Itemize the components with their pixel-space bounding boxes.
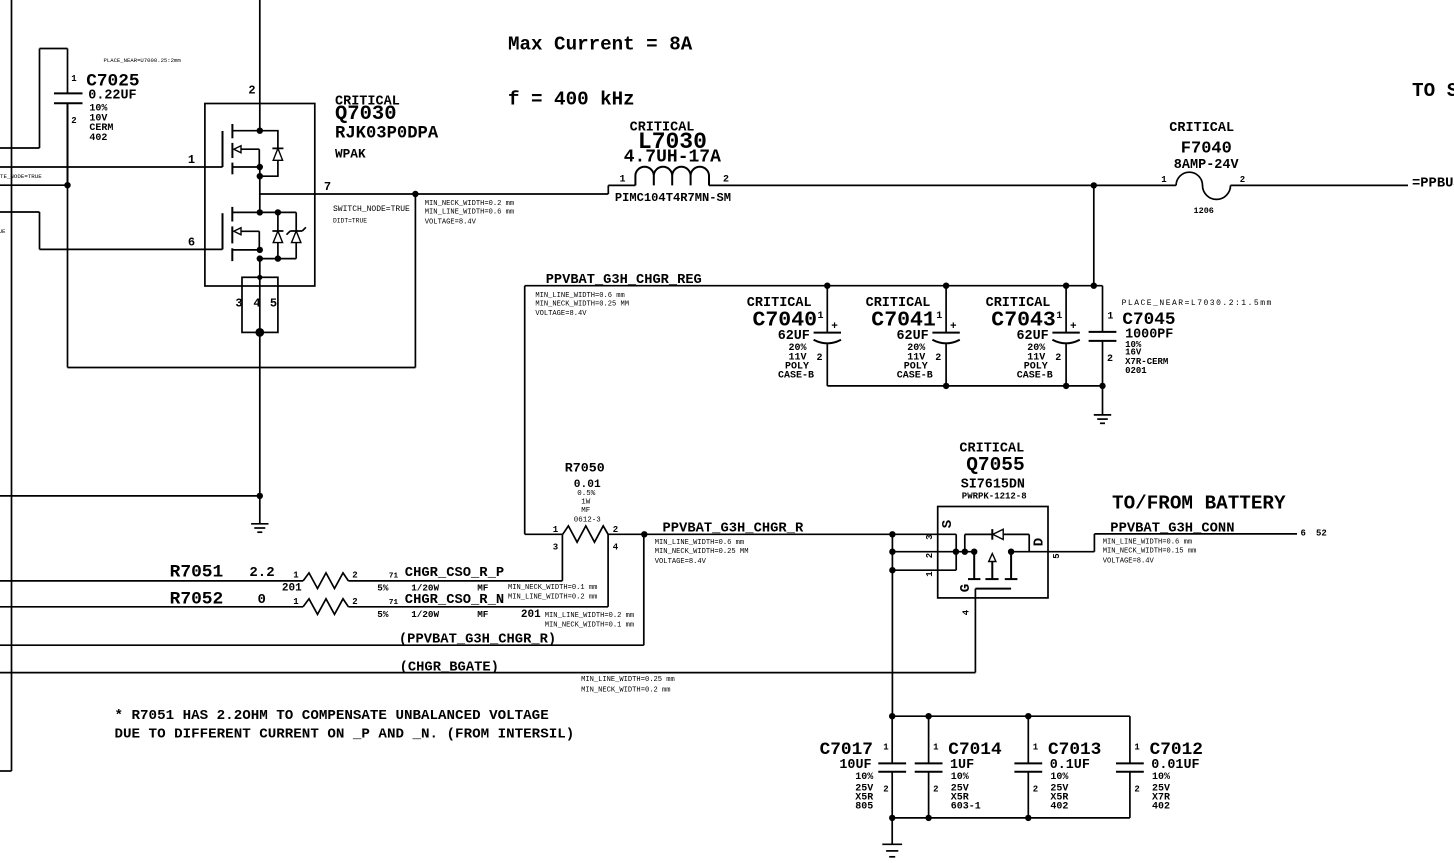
- wire ground rail left: [0, 495, 260, 497]
- capacitor C7014 symbol: [915, 716, 943, 818]
- label MIN_LINE_WIDTH=0.2 mm p: [508, 594, 597, 602]
- junction dot q7055 src a: [953, 549, 959, 555]
- svg-text:201: 201: [282, 582, 302, 594]
- svg-text:3: 3: [553, 543, 558, 553]
- svg-text:10UF: 10UF: [839, 758, 871, 773]
- svg-text:+: +: [1070, 321, 1077, 333]
- C7041 plus sign: [950, 321, 957, 333]
- wire R7050 pin 3 sense: [561, 534, 563, 581]
- svg-text:=PPBUS: =PPBUS: [1412, 177, 1454, 192]
- C7017 prop3: [855, 793, 873, 804]
- svg-text:603-1: 603-1: [951, 802, 981, 813]
- C7012 prop4: [1152, 802, 1170, 813]
- C7045 pin 2 label: [1107, 354, 1113, 365]
- junction dot lower drain diode: [275, 209, 281, 215]
- svg-text:5%: 5%: [377, 582, 389, 593]
- R7052 package 201: [521, 609, 541, 621]
- C7012 pin 1 label: [1134, 743, 1140, 753]
- junction dot brail gnd: [889, 815, 895, 821]
- resistor R7052 element: [0, 599, 608, 615]
- junction dot Q7030 source: [257, 164, 263, 170]
- junction dot q7055 src c: [971, 549, 977, 555]
- capacitor C7025: [54, 93, 83, 185]
- ground symbol bottom: [882, 818, 902, 857]
- svg-text:2: 2: [1240, 175, 1245, 185]
- svg-text:1: 1: [1107, 312, 1113, 323]
- net label PPVBAT_G3H_CONN: [1110, 522, 1234, 537]
- C7017 pin 2 label: [883, 785, 888, 795]
- svg-text:2: 2: [71, 116, 76, 126]
- junction dot pins bottom: [255, 328, 264, 337]
- svg-text:PIMC104T4R7MN-SM: PIMC104T4R7MN-SM: [615, 191, 731, 205]
- Q7055 S label: [940, 520, 956, 528]
- C7013 prop1: [1050, 772, 1068, 783]
- C7017 value: [839, 758, 871, 773]
- svg-text:MIN_LINE_WIDTH=0.6 mm: MIN_LINE_WIDTH=0.6 mm: [535, 292, 624, 300]
- fuse F7040 ref: [1181, 140, 1232, 159]
- svg-text:6: 6: [1301, 529, 1306, 539]
- C7040 package CASE-B: [778, 370, 814, 381]
- svg-text:2: 2: [933, 785, 938, 795]
- svg-text:Q7055: Q7055: [966, 454, 1025, 476]
- svg-text:1/20W: 1/20W: [411, 609, 439, 620]
- net label (CHGR_BGATE): [400, 659, 499, 675]
- C7014 prop1: [951, 772, 969, 783]
- svg-text:71: 71: [389, 573, 399, 581]
- C7045 package 0201: [1125, 366, 1147, 376]
- C7043 pin 2 label: [1055, 353, 1061, 364]
- R7050 pin 3 label: [553, 543, 558, 553]
- wire pin 7 switch node: [260, 185, 636, 194]
- Q7030 lower FET source stub: [232, 249, 259, 251]
- svg-text:10%: 10%: [1050, 772, 1068, 783]
- wire R7050 pin 4 sense: [607, 534, 609, 607]
- C7040 voltage 11V: [789, 353, 807, 364]
- svg-text:MF: MF: [477, 582, 489, 593]
- junction dot q7055 src b: [962, 549, 968, 555]
- junction dot rail q7055: [889, 713, 895, 719]
- C7025 package 402: [89, 133, 107, 144]
- svg-text:CASE-B: CASE-B: [1017, 370, 1053, 381]
- capacitor C7012 ref label: [1150, 740, 1203, 760]
- C7045 dielectric X7R-CERM: [1125, 357, 1168, 367]
- C7025 pin 2 label: [71, 116, 76, 126]
- svg-text:1: 1: [817, 311, 823, 322]
- svg-text:CASE-B: CASE-B: [778, 370, 814, 381]
- C7043 type POLY: [1024, 362, 1048, 373]
- L7030 value 4.7UH-17A: [624, 148, 721, 168]
- capacitor C7043 symbol: [1052, 286, 1079, 386]
- C7041 voltage 11V: [907, 353, 925, 364]
- svg-text:2: 2: [1033, 785, 1038, 795]
- C7043 CRITICAL label: [986, 296, 1051, 311]
- transistor Q7030 body box: [205, 104, 315, 287]
- C7041 value 62UF: [897, 329, 929, 344]
- svg-text:PPVBAT_G3H_CONN: PPVBAT_G3H_CONN: [1110, 522, 1234, 537]
- junction dot switch node: [412, 191, 418, 197]
- junction dot chgr pin2: [889, 549, 895, 555]
- junction dot C7043 top: [1063, 283, 1069, 289]
- node A wire into C7025 pin2: [0, 184, 68, 186]
- Q7055 G label: [958, 584, 974, 592]
- svg-text:4: 4: [962, 609, 972, 615]
- C7013 prop3: [1050, 793, 1068, 804]
- svg-text:5%: 5%: [377, 609, 389, 620]
- svg-text:1: 1: [619, 175, 625, 186]
- L7030 pin 2 label: [723, 175, 729, 186]
- capacitor C7043 ref: [991, 309, 1056, 333]
- svg-text:2: 2: [1134, 785, 1139, 795]
- C7014 prop3: [951, 793, 969, 804]
- wire fuse node down to reg rail: [1093, 185, 1095, 285]
- svg-text:MIN_NECK_WIDTH=0.15 mm: MIN_NECK_WIDTH=0.15 mm: [1103, 548, 1197, 556]
- L7030 CRITICAL label: [630, 121, 695, 136]
- label MIN_NECK_WIDTH=0.2 mm: [425, 200, 514, 208]
- resistor R7051 element: [0, 573, 562, 589]
- label MIN_LINE_WIDTH=0.25 mm bg: [581, 676, 675, 684]
- svg-text:402: 402: [1050, 802, 1068, 813]
- C7043 plus sign: [1070, 321, 1077, 333]
- R7050 pin 2 label: [613, 525, 618, 535]
- junction dot brail c7013: [1025, 815, 1031, 821]
- wire Q7030 switch node vertical: [259, 167, 261, 212]
- Q7055 diode symbol: [992, 529, 1003, 540]
- Q7055 package PWRPK-1212-8: [962, 491, 1027, 501]
- svg-text:1: 1: [188, 153, 195, 167]
- C7043 package CASE-B: [1017, 370, 1053, 381]
- C7014 pin 1 label: [933, 743, 939, 753]
- C7025 value 0.22UF: [88, 89, 136, 104]
- F7040 pin 1 label: [1161, 175, 1167, 185]
- svg-text:MIN_LINE_WIDTH=0.6 mm: MIN_LINE_WIDTH=0.6 mm: [425, 209, 514, 217]
- svg-text:2: 2: [816, 353, 822, 364]
- label PLACE_NEAR=L7030.2:1.5mm: [1122, 299, 1273, 308]
- junction dot chgr pin3: [889, 531, 895, 537]
- Q7030 lower FET channel: [231, 207, 233, 261]
- svg-text:3: 3: [235, 297, 242, 311]
- C7014 prop2: [951, 784, 969, 795]
- svg-text:+: +: [950, 321, 957, 333]
- wire Q7030 source to ground: [259, 332, 261, 496]
- F7040 value 8AMP-24V: [1174, 158, 1240, 173]
- label MIN_NECK_WIDTH=0.1 mm p: [508, 584, 597, 592]
- svg-text:C7013: C7013: [1048, 740, 1101, 760]
- svg-text:DUE TO DIFFERENT CURRENT ON _P: DUE TO DIFFERENT CURRENT ON _P AND _N. (…: [115, 727, 575, 743]
- label TO S (cut): [1412, 80, 1454, 102]
- Q7030 CRITICAL label: [335, 95, 400, 110]
- svg-text:2: 2: [1107, 354, 1113, 365]
- transistor Q7055 ref: [966, 454, 1025, 476]
- C7013 prop4: [1050, 802, 1068, 813]
- junction dot C7041 bottom: [943, 383, 949, 389]
- svg-text:D: D: [1032, 538, 1048, 546]
- label VOLTAGE=8.4V conn: [1103, 558, 1155, 566]
- resistor R7050 element: [525, 526, 608, 542]
- svg-text:MF: MF: [581, 507, 590, 515]
- capacitor C7013 ref label: [1048, 740, 1101, 760]
- Q7030 upper FET body diode: [260, 131, 284, 177]
- svg-text:2: 2: [1055, 353, 1061, 364]
- label VOLTAGE=8.4V: [425, 219, 477, 227]
- net label CHGR_CSO_R_P: [405, 566, 504, 581]
- C7014 prop4: [951, 802, 981, 813]
- R7052 type MF: [477, 609, 489, 620]
- label TO/FROM BATTERY: [1112, 493, 1286, 515]
- svg-text:VOLTAGE=8.4V: VOLTAGE=8.4V: [1103, 558, 1155, 566]
- svg-text:4: 4: [613, 543, 619, 553]
- junction dot rail c7013: [1025, 713, 1031, 719]
- junction dot Q7030 diode return: [257, 173, 263, 179]
- C7013 pin 2 label: [1033, 785, 1038, 795]
- junction dot lower source: [257, 247, 263, 253]
- capacitor C7040 ref: [753, 309, 818, 333]
- Q7030 pin 7 label: [324, 180, 331, 194]
- svg-text:0.5%: 0.5%: [577, 490, 596, 498]
- wire PPVBAT_G3H_CHGR_REG rail: [525, 285, 1103, 287]
- Q7030 pin 6 label: [188, 236, 195, 250]
- R7050 package 0612-3: [574, 517, 602, 525]
- inductor L7030 coils: [635, 167, 709, 186]
- svg-text:F7040: F7040: [1181, 140, 1232, 159]
- capacitor C7012 symbol: [1116, 716, 1144, 818]
- Q7055 body diode loop: [965, 534, 1029, 551]
- svg-text:VOLTAGE=8.4V: VOLTAGE=8.4V: [425, 219, 477, 227]
- svg-text:62UF: 62UF: [897, 329, 929, 344]
- Q7030 upper FET source stub: [232, 166, 259, 168]
- C7040 type POLY: [785, 362, 809, 373]
- label MIN_LINE_WIDTH=0.6 mm chgr: [655, 539, 744, 547]
- svg-text:TO/FROM BATTERY: TO/FROM BATTERY: [1112, 493, 1286, 515]
- svg-text:CRITICAL: CRITICAL: [1169, 121, 1234, 136]
- sheet ref 6: [1301, 529, 1306, 539]
- transistor Q7055 body box: [938, 507, 1048, 598]
- svg-text:805: 805: [855, 802, 873, 813]
- svg-text:TO SMC: TO SMC: [1412, 80, 1454, 102]
- svg-text:2: 2: [723, 175, 729, 186]
- svg-text:1206: 1206: [1194, 206, 1214, 216]
- svg-text:MIN_LINE_WIDTH=0.25 mm: MIN_LINE_WIDTH=0.25 mm: [581, 676, 675, 684]
- wire L7030 to F7040: [709, 184, 1176, 186]
- capacitor C7041 symbol: [932, 286, 959, 386]
- sheet ref 52: [1316, 529, 1327, 539]
- capacitor C7014 ref label: [948, 740, 1002, 760]
- svg-text:C7012: C7012: [1150, 740, 1203, 760]
- C7040 pin 1 label: [817, 311, 823, 322]
- label UE fragment: [0, 228, 6, 235]
- svg-text:G: G: [958, 584, 974, 592]
- svg-text:3: 3: [925, 534, 935, 539]
- C7013 value: [1050, 758, 1090, 773]
- Q7030 part RJK03P0DPA: [335, 125, 439, 144]
- svg-text:VOLTAGE=8.4V: VOLTAGE=8.4V: [535, 310, 587, 318]
- C7025 ref label: [86, 71, 139, 91]
- R7051 ref label: [170, 563, 224, 583]
- C7045 tolerance 10%: [1125, 340, 1142, 350]
- C7017 pin 1 label: [883, 743, 889, 753]
- svg-text:MF: MF: [477, 609, 489, 620]
- junction dot q7055 drain: [1008, 549, 1014, 555]
- wire Q7055 drain out: [1011, 534, 1297, 552]
- svg-text:71: 71: [389, 599, 399, 607]
- junction dot brail c7014: [925, 815, 931, 821]
- svg-text:MIN_NECK_WIDTH=0.2 mm: MIN_NECK_WIDTH=0.2 mm: [581, 687, 670, 695]
- Q7030 pin 5 label: [270, 297, 277, 311]
- inductor L7030 ref: [638, 129, 707, 155]
- junction dot C7041 top: [943, 283, 949, 289]
- svg-text:5: 5: [270, 297, 277, 311]
- Q7030 upper FET channel: [231, 124, 233, 174]
- svg-text:VOLTAGE=8.4V: VOLTAGE=8.4V: [655, 558, 707, 566]
- svg-text:MIN_LINE_WIDTH=0.2 mm: MIN_LINE_WIDTH=0.2 mm: [545, 612, 634, 620]
- svg-text:UE: UE: [0, 228, 6, 235]
- F7040 pin 2 label: [1240, 175, 1245, 185]
- junction dot rail c7014: [925, 713, 931, 719]
- capacitor C7017 ref label: [820, 740, 873, 760]
- C7012 value: [1151, 758, 1199, 773]
- L7030 part number PIMC104T4R7MN-SM: [615, 191, 731, 205]
- C7025 voltage 10V: [89, 113, 107, 124]
- svg-text:4.7UH-17A: 4.7UH-17A: [624, 148, 721, 168]
- svg-text:MIN_LINE_WIDTH=0.6 mm: MIN_LINE_WIDTH=0.6 mm: [655, 539, 744, 547]
- Q7055 part SI7615DN: [961, 478, 1025, 493]
- junction dot C7025 pin 2: [64, 182, 70, 188]
- ground symbol Q7030: [251, 496, 268, 532]
- note line 2: [115, 727, 575, 743]
- svg-text:0.22UF: 0.22UF: [88, 89, 136, 104]
- wire PPVBAT_G3H_CHGR_R stub: [0, 534, 644, 645]
- Q7030 lower FET body arrow: [234, 228, 259, 250]
- svg-text:1: 1: [71, 74, 77, 84]
- label MIN_LINE_WIDTH=0.6 mm: [425, 209, 514, 217]
- Q7055 pin 2 label: [925, 553, 935, 558]
- svg-text:PLACE_NEAR=L7030.2:1.5mm: PLACE_NEAR=L7030.2:1.5mm: [1122, 299, 1273, 308]
- svg-text:8AMP-24V: 8AMP-24V: [1174, 158, 1240, 173]
- svg-text:TE_NODE=TRUE: TE_NODE=TRUE: [0, 173, 42, 180]
- svg-text:MIN_NECK_WIDTH=0.25 MM: MIN_NECK_WIDTH=0.25 MM: [655, 548, 749, 556]
- C7012 prop2: [1152, 784, 1170, 795]
- C7013 pin 1 label: [1033, 743, 1039, 753]
- svg-text:62UF: 62UF: [778, 329, 810, 344]
- label f = 400 kHz: [508, 89, 635, 111]
- C7041 tolerance 20%: [907, 343, 925, 354]
- svg-text:0.01UF: 0.01UF: [1151, 758, 1199, 773]
- svg-text:10%: 10%: [855, 772, 873, 783]
- C7045 value 1000PF: [1125, 328, 1173, 343]
- junction dot Q7030 drain: [257, 128, 263, 134]
- wire C7025 pin2 to switch node loop: [68, 185, 416, 367]
- R7052 value 0: [258, 592, 266, 608]
- svg-text:1: 1: [293, 597, 299, 607]
- svg-text:Max Current = 8A: Max Current = 8A: [508, 34, 693, 56]
- svg-text:62UF: 62UF: [1017, 329, 1049, 344]
- junction dot ground node: [257, 493, 263, 499]
- svg-text:402: 402: [1152, 802, 1170, 813]
- svg-text:1: 1: [1161, 175, 1167, 185]
- svg-text:CHGR_CSO_R_P: CHGR_CSO_R_P: [405, 566, 504, 581]
- C7043 tolerance 20%: [1027, 343, 1045, 354]
- R7051 value 2.2: [249, 565, 274, 581]
- label DIDT=TRUE: [333, 217, 367, 224]
- R7050 tolerance 0.5%: [577, 490, 596, 498]
- svg-text:2.2: 2.2: [249, 565, 274, 581]
- R7050 pin 1 label: [553, 525, 559, 535]
- svg-text:0.1UF: 0.1UF: [1050, 758, 1090, 773]
- C7040 pin 2 label: [816, 353, 822, 364]
- C7012 prop1: [1152, 772, 1170, 783]
- R7050 type MF: [581, 507, 590, 515]
- svg-text:+: +: [831, 321, 838, 333]
- Q7030 lower FET drain stub: [232, 211, 296, 213]
- capacitor C7013 symbol: [1014, 716, 1042, 818]
- Q7055 FET drain stub: [1010, 552, 1012, 579]
- R7052 tolerance 5%: [377, 609, 389, 620]
- R7052 power 1/20W: [411, 609, 439, 620]
- svg-text:7: 7: [324, 180, 331, 194]
- C7040 plus sign: [831, 321, 838, 333]
- junction dot lower diode return: [275, 255, 281, 261]
- svg-text:1/20W: 1/20W: [411, 582, 439, 593]
- label =PPBU (cut): [1412, 177, 1454, 192]
- wire gate 1 input: [0, 166, 223, 168]
- F7040 CRITICAL label: [1169, 121, 1234, 136]
- svg-text:1: 1: [933, 743, 939, 753]
- Q7030 lower FET zener diode: [260, 212, 306, 258]
- C7041 CRITICAL label: [866, 296, 931, 311]
- R7051 pin 2 label: [352, 571, 357, 581]
- svg-text:52: 52: [1316, 529, 1327, 539]
- label MIN_NECK_WIDTH=0.25 MM chgr: [655, 548, 749, 556]
- C7017 prop1: [855, 772, 873, 783]
- svg-text:2: 2: [248, 84, 255, 98]
- Q7055 pin 5 label: [1052, 553, 1062, 558]
- C7014 pin 2 label: [933, 785, 938, 795]
- Q7030 pin 1 label: [188, 153, 195, 167]
- svg-text:MIN_NECK_WIDTH=0.2 mm: MIN_NECK_WIDTH=0.2 mm: [425, 200, 514, 208]
- capacitor C7045 ref: [1122, 310, 1175, 330]
- C7041 package CASE-B: [897, 370, 933, 381]
- label MIN_NECK_WIDTH=0.25 MM reg: [535, 301, 629, 309]
- R7051 power 1/20W: [411, 582, 439, 593]
- C7040 value 62UF: [778, 329, 810, 344]
- svg-text:DIDT=TRUE: DIDT=TRUE: [333, 217, 367, 224]
- Q7030 lower FET body diode: [272, 212, 283, 258]
- transistor Q7030 ref: [335, 103, 397, 126]
- wire R7050 to Q7055: [608, 533, 956, 535]
- svg-text:MIN_NECK_WIDTH=0.25 MM: MIN_NECK_WIDTH=0.25 MM: [535, 301, 629, 309]
- capacitor C7041 ref: [871, 309, 936, 333]
- wire caps bottom rail: [827, 385, 1102, 387]
- C7045 pin 1 label: [1107, 312, 1113, 323]
- svg-text:6: 6: [188, 236, 195, 250]
- C7040 CRITICAL label: [747, 296, 812, 311]
- C7014 value: [950, 758, 974, 773]
- R7050 ref label: [565, 461, 605, 476]
- junction dot C7043 bottom: [1063, 383, 1069, 389]
- svg-text:0612-3: 0612-3: [574, 517, 602, 525]
- label VOLTAGE=8.4V chgr: [655, 558, 707, 566]
- wire caps bottom rail 2: [892, 817, 1130, 819]
- svg-text:CASE-B: CASE-B: [897, 370, 933, 381]
- svg-text:CHGR_CSO_R_N: CHGR_CSO_R_N: [405, 593, 504, 608]
- junction dot fuse input: [1091, 182, 1097, 188]
- F7040 package 1206: [1194, 206, 1214, 216]
- R7051 type MF: [477, 582, 489, 593]
- wire CHGR_BGATE: [0, 589, 975, 673]
- net label (PPVBAT_G3H_CHGR_R): [399, 632, 556, 648]
- junction dot chgr pin1: [889, 567, 895, 573]
- svg-text:PWRPK-1212-8: PWRPK-1212-8: [962, 491, 1027, 501]
- svg-text:1UF: 1UF: [950, 758, 974, 773]
